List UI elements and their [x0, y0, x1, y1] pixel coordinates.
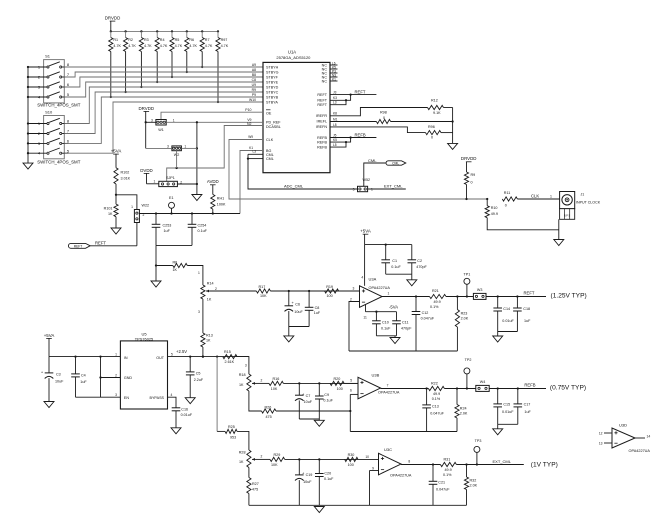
- svg-text:C6: C6: [295, 303, 300, 307]
- svg-text:4: 4: [171, 393, 173, 397]
- svg-text:2.2uF: 2.2uF: [194, 378, 204, 382]
- jumper W2: [167, 145, 186, 168]
- svg-text:9.1K: 9.1K: [433, 111, 441, 115]
- svg-text:STBYC: STBYC: [266, 90, 279, 94]
- svg-text:475: 475: [252, 488, 258, 492]
- svg-text:N P S: N P S: [564, 215, 571, 218]
- capacitor C5: [186, 357, 204, 398]
- svg-text:R31: R31: [444, 458, 451, 462]
- wire: [489, 387, 546, 389]
- wire: [386, 274, 412, 280]
- capacitor C11: [392, 312, 412, 336]
- op-amp U3A: [350, 276, 390, 320]
- svg-text:1: 1: [173, 118, 175, 122]
- svg-text:10uF: 10uF: [303, 480, 312, 484]
- wire cap rail: [139, 212, 240, 214]
- svg-text:REFB: REFB: [317, 140, 327, 144]
- svg-text:TP3: TP3: [475, 439, 482, 443]
- svg-text:0.01uF: 0.01uF: [181, 413, 193, 417]
- svg-text:2: 2: [261, 379, 263, 383]
- svg-text:C8: C8: [252, 78, 256, 82]
- svg-text:(1.25V TYP): (1.25V TYP): [551, 293, 587, 300]
- svg-text:2: 2: [261, 454, 263, 458]
- svg-text:1uF: 1uF: [164, 229, 171, 233]
- capacitor C1: [381, 245, 401, 275]
- op-amp U3C: [372, 447, 412, 478]
- connector J1 INPUT CLOCK: [559, 192, 601, 240]
- wire: [283, 382, 358, 384]
- svg-text:REFB: REFB: [355, 132, 366, 137]
- svg-text:DCASBL: DCASBL: [266, 125, 281, 129]
- svg-text:4.7K: 4.7K: [205, 44, 213, 48]
- label pin W10: [249, 98, 256, 102]
- svg-text:1K: 1K: [206, 339, 211, 343]
- svg-text:+5VA: +5VA: [360, 229, 371, 234]
- svg-text:1uF: 1uF: [80, 380, 87, 384]
- svg-text:R10: R10: [491, 206, 498, 210]
- svg-text:REFT: REFT: [317, 103, 327, 107]
- svg-text:475: 475: [266, 415, 272, 419]
- regulator U5 TPS76025: [115, 331, 173, 409]
- wire STBY bus 3: [64, 77, 263, 87]
- wire NC pins: [330, 61, 338, 81]
- svg-text:CLK: CLK: [266, 138, 274, 142]
- resistor R21: [430, 289, 447, 309]
- svg-text:2: 2: [115, 374, 117, 378]
- svg-text:C4: C4: [81, 373, 86, 377]
- capacitor C7: [295, 383, 313, 419]
- op-amp U3D: [599, 423, 651, 454]
- svg-text:0: 0: [383, 116, 385, 120]
- svg-text:1K: 1K: [239, 460, 244, 464]
- svg-text:6: 6: [350, 388, 352, 392]
- svg-text:0.01uF: 0.01uF: [502, 410, 514, 414]
- resistor R1: [109, 31, 122, 98]
- svg-text:1: 1: [550, 194, 552, 198]
- wire +2.5V drop: [216, 357, 218, 432]
- resistor R96: [426, 122, 453, 144]
- capacitor C19: [295, 459, 312, 505]
- svg-text:K3: K3: [333, 96, 337, 100]
- power +5VA: [360, 229, 371, 245]
- wire IREFN: [330, 123, 426, 133]
- resistor R15: [223, 350, 249, 374]
- svg-text:SWITCH_4POS_SMT: SWITCH_4POS_SMT: [37, 103, 80, 108]
- svg-text:R25: R25: [228, 425, 235, 429]
- resistor R2: [124, 31, 137, 93]
- wire REFB pins: [330, 132, 376, 147]
- svg-text:2.0K: 2.0K: [460, 412, 468, 416]
- ground: [23, 163, 33, 169]
- svg-text:EN: EN: [124, 396, 129, 400]
- svg-text:1K: 1K: [108, 212, 113, 216]
- wire: [365, 243, 412, 245]
- svg-text:DRVDD: DRVDD: [139, 106, 155, 111]
- wire W2-3: [146, 147, 172, 149]
- svg-text:C15: C15: [503, 403, 510, 407]
- wire: [456, 463, 523, 465]
- svg-text:C8: C8: [315, 306, 320, 310]
- svg-text:C17: C17: [524, 403, 531, 407]
- svg-text:INPUT CLOCK: INPUT CLOCK: [576, 201, 601, 205]
- svg-text:OPA4227UA: OPA4227UA: [629, 449, 651, 453]
- svg-text:J3: J3: [333, 91, 337, 95]
- label pin B8: [252, 73, 256, 77]
- test point TP1: [464, 273, 471, 297]
- svg-text:R1: R1: [113, 38, 118, 42]
- svg-text:0: 0: [431, 136, 433, 140]
- wire ADC_CML: [247, 150, 358, 190]
- ground: [111, 228, 121, 234]
- capacitor C6: [285, 291, 304, 327]
- svg-text:U3C: U3C: [384, 447, 392, 452]
- svg-text:BYPASS: BYPASS: [150, 396, 165, 400]
- svg-text:R18: R18: [239, 373, 246, 377]
- resistor R10: [485, 198, 559, 230]
- capacitor C15: [493, 389, 514, 425]
- wire: [444, 387, 475, 389]
- svg-text:2: 2: [215, 287, 217, 291]
- wire STBY bus 4: [64, 82, 263, 97]
- label pin A9: [252, 63, 256, 67]
- wire STBY bus 1: [64, 66, 263, 68]
- resistor R102: [114, 168, 131, 196]
- svg-text:TPS76025: TPS76025: [135, 336, 153, 341]
- label SWITCH_4POS_SMT: [37, 103, 80, 108]
- svg-text:R16: R16: [273, 377, 280, 381]
- svg-text:4.7K: 4.7K: [144, 44, 152, 48]
- svg-text:CML: CML: [392, 162, 399, 166]
- svg-text:EXT_CML: EXT_CML: [493, 459, 512, 464]
- svg-text:R3: R3: [144, 38, 149, 42]
- svg-text:2.0K: 2.0K: [470, 483, 478, 487]
- svg-text:REFT: REFT: [95, 240, 106, 245]
- wire: [110, 30, 220, 32]
- svg-text:8: 8: [408, 460, 410, 464]
- svg-text:REFT: REFT: [74, 245, 83, 249]
- resistor RH1: [211, 194, 226, 214]
- svg-text:L3: L3: [333, 101, 337, 105]
- svg-text:9: 9: [372, 467, 374, 471]
- ground: [171, 428, 181, 434]
- wire CML: [364, 158, 386, 187]
- resistor R13: [201, 333, 213, 358]
- potentiometer R18: [239, 364, 263, 392]
- svg-text:3: 3: [115, 393, 117, 397]
- wire feedback3: [249, 504, 467, 506]
- svg-text:7: 7: [387, 384, 389, 388]
- svg-text:TP2: TP2: [465, 358, 472, 362]
- svg-text:W9: W9: [248, 135, 253, 139]
- resistor R17: [256, 285, 270, 298]
- svg-text:R97: R97: [221, 38, 228, 42]
- svg-text:R6: R6: [189, 38, 194, 42]
- svg-text:TP1: TP1: [464, 273, 471, 277]
- label 1.25V TYP: [551, 293, 587, 300]
- wire: [256, 458, 271, 460]
- wire: [156, 265, 173, 267]
- test point E1: [169, 196, 175, 215]
- label SWITCH_4POS_SMT: [37, 159, 80, 164]
- capacitor C17: [514, 389, 532, 425]
- svg-text:2: 2: [143, 213, 145, 217]
- op-amp U3B: [350, 372, 400, 399]
- svg-text:GND: GND: [124, 376, 133, 380]
- svg-text:W1: W1: [158, 128, 164, 132]
- capacitor C253: [152, 214, 172, 246]
- svg-text:(0.75V TYP): (0.75V TYP): [550, 385, 586, 392]
- svg-text:+5VA: +5VA: [111, 149, 122, 154]
- svg-text:R17: R17: [259, 285, 266, 289]
- svg-text:3: 3: [151, 118, 153, 122]
- svg-text:L8: L8: [333, 123, 337, 127]
- svg-text:REFT: REFT: [317, 93, 327, 97]
- svg-text:C18: C18: [523, 307, 530, 311]
- svg-text:STBYH: STBYH: [266, 65, 279, 69]
- svg-text:1uF: 1uF: [524, 319, 531, 323]
- svg-text:1: 1: [154, 179, 156, 183]
- wire STBY bus 2: [64, 72, 263, 77]
- wire: [299, 419, 319, 420]
- svg-text:2578GA_ADS5120: 2578GA_ADS5120: [276, 55, 311, 60]
- resistor R6: [185, 31, 198, 73]
- wire PD_REF: [145, 118, 263, 124]
- svg-text:OPA4227UA: OPA4227UA: [369, 286, 391, 290]
- svg-text:1K: 1K: [239, 383, 244, 387]
- power DRVDD: [105, 16, 121, 32]
- svg-text:K8: K8: [333, 112, 337, 116]
- svg-text:R2: R2: [128, 38, 133, 42]
- capacitor C14: [493, 297, 514, 332]
- wire: [198, 291, 256, 333]
- svg-text:2.0K: 2.0K: [461, 317, 469, 321]
- svg-text:R96: R96: [428, 125, 435, 129]
- resistor R11: [502, 191, 559, 208]
- svg-text:R6: R6: [173, 260, 178, 264]
- resistor R25: [217, 425, 249, 450]
- svg-text:R23: R23: [461, 312, 468, 316]
- ground: [44, 402, 54, 408]
- svg-text:OE: OE: [266, 112, 272, 116]
- power DRVDD: [461, 156, 477, 172]
- svg-text:-5VA: -5VA: [389, 304, 398, 309]
- svg-text:S1: S1: [45, 54, 51, 59]
- svg-text:IREFN: IREFN: [316, 125, 327, 129]
- resistor R31: [440, 458, 456, 477]
- svg-text:100: 100: [348, 463, 354, 467]
- svg-text:0.047uF: 0.047uF: [436, 488, 450, 492]
- svg-text:10uF: 10uF: [55, 380, 64, 384]
- svg-text:R5: R5: [175, 38, 180, 42]
- svg-text:A9: A9: [252, 63, 256, 67]
- label EXT_CML: [493, 459, 512, 464]
- svg-text:100: 100: [327, 294, 333, 298]
- resistor R9: [464, 172, 475, 200]
- capacitor C21: [429, 465, 451, 506]
- svg-text:10K: 10K: [271, 463, 278, 467]
- svg-text:13: 13: [599, 441, 603, 445]
- wire: [256, 382, 270, 384]
- resistor R98: [376, 111, 453, 124]
- svg-text:100K: 100K: [217, 203, 226, 207]
- wire BG: [240, 146, 263, 213]
- wire feedback2: [350, 431, 457, 433]
- wire: [49, 355, 120, 357]
- wire STBY bus 5: [64, 87, 263, 124]
- resistor R22: [428, 382, 444, 401]
- wire IREFL: [330, 117, 376, 121]
- wire REFT pins: [330, 89, 376, 104]
- svg-text:3.01K: 3.01K: [121, 177, 131, 181]
- svg-text:CML: CML: [266, 157, 274, 161]
- svg-text:10uF: 10uF: [294, 310, 303, 314]
- svg-text:R12: R12: [431, 99, 438, 103]
- wire: [90, 223, 137, 246]
- svg-text:C5: C5: [196, 371, 201, 375]
- svg-text:C19: C19: [306, 473, 313, 477]
- label pin R9: [252, 88, 256, 92]
- svg-text:1K: 1K: [207, 298, 212, 302]
- wire: [370, 471, 379, 506]
- svg-text:IREFL: IREFL: [317, 120, 327, 124]
- svg-text:STBYA: STBYA: [266, 100, 278, 104]
- capacitor C12: [412, 297, 435, 352]
- svg-text:3: 3: [353, 188, 355, 192]
- svg-text:3: 3: [198, 310, 200, 314]
- wire: [285, 455, 379, 461]
- test point TP3: [474, 439, 481, 465]
- svg-text:0.01uF: 0.01uF: [502, 319, 514, 323]
- svg-text:S10: S10: [45, 110, 53, 115]
- svg-text:OPA4227UA: OPA4227UA: [390, 474, 412, 478]
- potentiometer R14: [201, 282, 217, 302]
- resistor R4: [155, 31, 168, 83]
- svg-text:DRVDD: DRVDD: [105, 16, 121, 21]
- svg-text:EXT_CML: EXT_CML: [384, 184, 403, 189]
- label 1V TYP: [531, 462, 558, 469]
- svg-text:0.1%: 0.1%: [432, 397, 441, 401]
- ground: [407, 280, 417, 286]
- svg-text:R11: R11: [504, 191, 511, 195]
- capacitor C9: [315, 383, 334, 419]
- ground: [390, 338, 400, 344]
- svg-text:10K: 10K: [271, 387, 278, 391]
- wire W2-1: [181, 147, 197, 149]
- svg-text:J5: J5: [333, 133, 337, 137]
- svg-text:C11: C11: [402, 320, 409, 324]
- label 0.75V TYP: [550, 385, 586, 392]
- wire: [99, 357, 120, 398]
- svg-text:C21: C21: [438, 481, 445, 485]
- svg-text:0.1uF: 0.1uF: [391, 265, 401, 269]
- ground: [493, 336, 503, 342]
- svg-text:5: 5: [350, 378, 352, 382]
- svg-text:REFB: REFB: [524, 382, 535, 387]
- resistor R7: [200, 31, 213, 68]
- svg-text:DVDD: DVDD: [140, 168, 152, 173]
- resistor R5: [170, 31, 183, 78]
- svg-text:1: 1: [198, 271, 200, 275]
- svg-text:REFB: REFB: [317, 136, 327, 140]
- svg-text:470pF: 470pF: [416, 265, 427, 269]
- ground: [448, 143, 458, 149]
- resistor R12: [428, 99, 453, 122]
- svg-text:AVDD: AVDD: [207, 179, 219, 184]
- svg-text:U3D: U3D: [619, 423, 627, 428]
- svg-text:U3B: U3B: [372, 372, 380, 377]
- jumper SJP1: [159, 176, 182, 187]
- svg-text:L3: L3: [252, 150, 256, 154]
- label pin U9: [252, 83, 256, 87]
- ground: [493, 429, 503, 435]
- resistor R3: [139, 31, 152, 88]
- resistor R26: [249, 391, 352, 419]
- svg-text:SJP1: SJP1: [166, 176, 175, 180]
- svg-text:R98: R98: [380, 111, 387, 115]
- flag REFT: [68, 240, 106, 248]
- svg-text:1uF: 1uF: [524, 410, 531, 414]
- svg-text:R9: R9: [252, 88, 256, 92]
- svg-text:B8: B8: [252, 73, 256, 77]
- svg-text:R22: R22: [431, 382, 438, 386]
- svg-text:R30: R30: [348, 453, 355, 457]
- svg-text:100: 100: [337, 387, 343, 391]
- wire: [486, 295, 546, 297]
- svg-text:R101: R101: [104, 207, 113, 211]
- svg-text:4: 4: [361, 276, 363, 280]
- svg-text:953: 953: [230, 435, 236, 439]
- svg-text:10: 10: [365, 455, 369, 459]
- svg-text:STBYF: STBYF: [266, 75, 279, 79]
- svg-text:REFB: REFB: [317, 145, 327, 149]
- power +5VA: [111, 149, 122, 168]
- potentiometer R28: [239, 450, 263, 468]
- svg-text:R28: R28: [239, 451, 246, 455]
- wire: [289, 327, 309, 336]
- svg-text:49.9: 49.9: [433, 392, 440, 396]
- flag CML: [386, 161, 406, 166]
- label REFB: [524, 382, 535, 387]
- svg-text:1: 1: [131, 205, 133, 209]
- wire: [344, 382, 358, 384]
- svg-text:2: 2: [350, 298, 352, 302]
- svg-text:K5: K5: [333, 138, 337, 142]
- svg-text:U9: U9: [252, 83, 256, 87]
- capacitor C18: [513, 297, 531, 332]
- wire U3A V+: [364, 245, 366, 286]
- svg-text:R24: R24: [460, 407, 467, 411]
- svg-text:10K: 10K: [260, 294, 267, 298]
- ground: [314, 507, 324, 513]
- svg-text:N2: N2: [247, 122, 252, 126]
- resistor R16: [269, 377, 283, 391]
- svg-text:OPA4227UA: OPA4227UA: [378, 390, 400, 394]
- svg-text:R15: R15: [224, 350, 231, 354]
- power +5VA: [44, 333, 55, 357]
- svg-text:0.1%: 0.1%: [443, 473, 452, 477]
- svg-text:NC: NC: [322, 79, 328, 83]
- switch S1: [28, 54, 70, 103]
- capacitor C2: [408, 245, 428, 275]
- svg-text:REFT: REFT: [355, 89, 366, 94]
- svg-text:0.047uF: 0.047uF: [430, 411, 444, 415]
- svg-text:4.7K: 4.7K: [189, 44, 197, 48]
- wire CLK net: [229, 135, 487, 199]
- svg-text:C20: C20: [324, 472, 331, 476]
- wire IREFR: [330, 108, 428, 116]
- svg-text:P9: P9: [252, 93, 256, 97]
- wire STBY bus 8: [64, 102, 263, 153]
